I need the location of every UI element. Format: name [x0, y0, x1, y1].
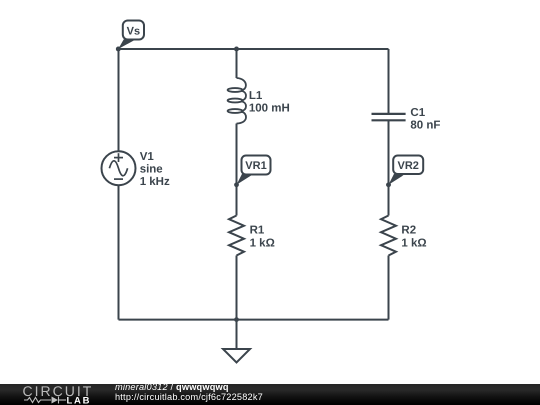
- V1 labels: [140, 151, 170, 188]
- svg-text:VR2: VR2: [397, 160, 418, 172]
- capacitor C1: [372, 114, 406, 120]
- svg-text:80 nF: 80 nF: [410, 120, 440, 132]
- wire top horizontal: [119, 48, 389, 50]
- resistor R2: [381, 216, 396, 256]
- wire ground stem: [236, 320, 238, 349]
- ground: [223, 349, 250, 363]
- inductor L1: [228, 78, 246, 124]
- svg-text:1 kΩ: 1 kΩ: [401, 237, 426, 249]
- svg-text:100 mH: 100 mH: [249, 103, 290, 115]
- svg-text:sine: sine: [140, 164, 163, 176]
- svg-text:VR1: VR1: [245, 160, 266, 172]
- node VR2 dot: [386, 182, 391, 187]
- node VR1 dot: [234, 182, 239, 187]
- junction node top (mid branch): [234, 47, 239, 52]
- wire right lower (R2 to bottom): [388, 256, 390, 320]
- svg-text:1 kΩ: 1 kΩ: [250, 237, 275, 249]
- svg-text:V1: V1: [140, 151, 155, 163]
- R1 labels: [250, 224, 275, 249]
- wire middle lower (R1 to bottom): [236, 256, 238, 320]
- resistor R1: [229, 216, 244, 256]
- flag VR1: [237, 156, 271, 185]
- flag VR2: [389, 156, 424, 185]
- wire right middle (C1 to R2): [388, 120, 390, 215]
- svg-text:Vs: Vs: [127, 26, 140, 38]
- wire right upper (top to C1): [388, 49, 390, 114]
- wire middle (L1 to R1): [236, 124, 238, 216]
- svg-text:R2: R2: [401, 224, 416, 236]
- flag Vs: [118, 21, 144, 50]
- svg-text:LAB: LAB: [67, 395, 92, 405]
- svg-text:R1: R1: [250, 224, 265, 236]
- L1 labels: [249, 90, 290, 115]
- footer bar: [0, 384, 540, 405]
- wire left lower: [118, 185, 120, 319]
- footer credit text: [115, 382, 263, 403]
- wire left upper: [118, 49, 120, 151]
- wire bottom horizontal: [119, 319, 389, 321]
- svg-text:1 kHz: 1 kHz: [140, 176, 170, 188]
- C1 labels: [410, 107, 440, 132]
- junction node bottom (ground): [234, 317, 239, 322]
- svg-text:L1: L1: [249, 90, 263, 102]
- R2 labels: [401, 224, 426, 249]
- svg-text:C1: C1: [410, 107, 425, 119]
- CircuitLab logo: [0, 384, 110, 405]
- node Vs dot: [116, 47, 121, 52]
- voltage source V1: [102, 151, 136, 185]
- wire middle upper (top to L1): [236, 49, 238, 78]
